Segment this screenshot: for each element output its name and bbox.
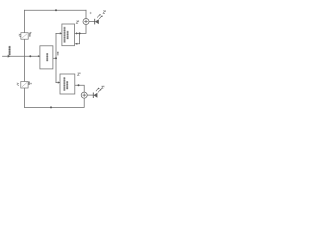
LED D2 cathode bar bbox=[92, 93, 94, 99]
PD1 contact bar bbox=[29, 33, 30, 37]
LED D2 triangle bbox=[94, 93, 98, 98]
block B2 (upper driver) bbox=[62, 24, 75, 46]
wire: top horizontal bus bbox=[25, 9, 87, 11]
PD1 body bbox=[21, 33, 28, 40]
PD2 incident arrows bbox=[17, 83, 19, 86]
node dot bottom bus bbox=[50, 106, 52, 108]
wire: lower branch into block B3 bbox=[56, 82, 60, 84]
PD1 diagonal bbox=[22, 34, 27, 38]
PD2 diagonal bbox=[22, 82, 27, 86]
PD2 body bbox=[21, 82, 28, 89]
block B1 (modulator) bbox=[40, 46, 53, 69]
arrowhead: input flow bbox=[8, 55, 11, 58]
block B3 (lower driver) bbox=[60, 74, 75, 94]
arrowhead: B2 output flow bbox=[76, 32, 78, 34]
B3 label text columns bbox=[64, 77, 69, 91]
wire: PD2 bottom down to bottom bus bbox=[24, 88, 26, 107]
LED D1 emission arrows bbox=[97, 15, 102, 19]
node dot B3 output bbox=[78, 84, 80, 86]
LED D1 value label bbox=[103, 11, 105, 13]
LED D2 emission arrows bbox=[96, 88, 101, 92]
PD2 contact bar bbox=[29, 82, 30, 85]
PD1 incident arrows bbox=[19, 34, 21, 37]
LED D2 bbox=[93, 86, 104, 98]
wire: drop into summing node S1 top bbox=[85, 10, 87, 18]
arrowhead: feedback into B2 right bbox=[75, 43, 77, 45]
wire: B1 output stub to vertical distribution wire bbox=[53, 57, 56, 59]
arrowhead: into B1 bbox=[38, 55, 40, 57]
wire: B3 output then down into summing node S2 top bbox=[75, 85, 84, 92]
node dot B2 output bbox=[79, 32, 81, 34]
label: z tag above B3 output bbox=[78, 73, 80, 75]
wire: S2 output to LED D2 bbox=[87, 94, 93, 96]
wire: upper branch into block B2 bbox=[56, 32, 61, 34]
photodetector PD2 bbox=[17, 82, 32, 89]
arrowhead: into B3 bbox=[58, 81, 60, 83]
PD2 polarity mark bbox=[30, 83, 32, 85]
node dot input junction bbox=[29, 55, 31, 57]
label: input signal (vertical column) bbox=[9, 46, 11, 55]
node dot on top bus bbox=[55, 9, 57, 11]
label: wire tag right of distribution wire bbox=[57, 52, 59, 56]
wire: B2 output to riser into summing node S1 bottom bbox=[75, 24, 87, 33]
B2 label text columns bbox=[64, 27, 69, 43]
wire: S1 output to LED D1 bbox=[89, 21, 95, 23]
wire: input line into block B1 bbox=[3, 55, 40, 57]
LED D1 triangle bbox=[95, 19, 99, 24]
wire: PD1 bottom down through input junction to PD2 top bbox=[24, 39, 26, 81]
label: z tag above B2 output bbox=[76, 21, 78, 23]
LED D1 bbox=[95, 10, 106, 24]
label + at S1 top input bbox=[90, 12, 92, 14]
wire: left column top (top wire corner down to photo-box PD1) bbox=[24, 10, 26, 33]
summing node S1 bbox=[83, 19, 89, 25]
wire: vertical distribution wire bbox=[55, 33, 57, 82]
photodetector PD1 bbox=[19, 32, 32, 39]
wire: bottom bus to riser into summing node S2 bottom bbox=[25, 98, 85, 107]
wire: feedback L-branch to B2 right side bbox=[76, 33, 80, 43]
LED D2 value label bbox=[101, 86, 103, 88]
node dot B1 output bbox=[55, 57, 57, 59]
PD1 polarity mark bbox=[30, 32, 32, 34]
B1 label text column bbox=[46, 53, 48, 61]
LED D1 cathode bar bbox=[94, 19, 96, 25]
summing node S2 bbox=[81, 92, 87, 98]
arrowhead: into B2 bbox=[60, 32, 62, 34]
